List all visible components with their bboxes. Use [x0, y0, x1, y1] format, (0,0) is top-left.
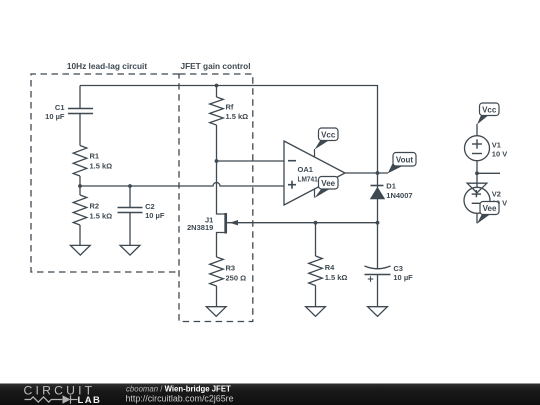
svg-text:LM741: LM741 — [298, 175, 318, 184]
svg-text:R3: R3 — [226, 264, 236, 273]
flag Vee (supply) tail — [477, 214, 491, 224]
svg-text:250 Ω: 250 Ω — [226, 273, 247, 282]
wire: non-inverting input run with hop — [80, 183, 284, 186]
ground at supply midpoint — [467, 183, 487, 193]
wire: R1 bottom to junction — [79, 176, 81, 186]
svg-text:Vcc: Vcc — [482, 105, 497, 114]
svg-text:Vcc: Vcc — [321, 130, 336, 139]
svg-text:1.5 kΩ: 1.5 kΩ — [90, 212, 113, 221]
node: R4 tap junction — [314, 221, 318, 225]
footer bar — [0, 384, 540, 405]
source V2 — [464, 187, 490, 213]
diode D1 body — [370, 187, 385, 200]
svg-text:R4: R4 — [325, 263, 335, 272]
wire: J1 drain lead — [217, 161, 225, 214]
wire: V1 bottom to junction — [476, 161, 478, 174]
wire: J1 source lead — [217, 233, 225, 258]
op-amp plus marker — [288, 181, 296, 189]
svg-text:R2: R2 — [90, 201, 100, 210]
V1 minus marker — [472, 153, 482, 155]
node: output junction — [376, 171, 380, 175]
svg-text:Rf: Rf — [226, 102, 234, 111]
V1 plus marker — [472, 139, 482, 148]
op-amp Vee pin stub — [314, 189, 316, 198]
wire: C1 top lead — [79, 86, 81, 109]
svg-text:10Hz lead-lag circuit: 10Hz lead-lag circuit — [67, 61, 147, 71]
svg-text:OA1: OA1 — [298, 165, 313, 174]
flag Vee (op-amp) — [319, 177, 339, 190]
wire: C1 bottom to R1 — [79, 114, 81, 146]
ground under R2 — [70, 245, 90, 255]
flag Vcc (supply) tail — [477, 114, 490, 125]
wire: C2 bottom lead — [129, 213, 131, 246]
V2 plus marker — [472, 190, 481, 197]
op-amp Vcc pin stub — [314, 149, 316, 158]
svg-text:Vee: Vee — [321, 179, 335, 188]
wire: V2 bottom stub — [476, 214, 478, 224]
svg-text:2N3819: 2N3819 — [187, 223, 213, 232]
wire: Rf top lead — [216, 86, 218, 98]
svg-text:10 V: 10 V — [492, 149, 507, 158]
resistor R1 — [73, 146, 87, 177]
svg-text:V1: V1 — [492, 140, 501, 149]
svg-text:C3: C3 — [393, 264, 403, 273]
ground under R4 — [306, 307, 326, 317]
capacitor C3 straight plate — [365, 274, 391, 276]
node: inverting input junction — [215, 159, 219, 163]
wire: Rf bottom lead to node — [216, 125, 218, 161]
ground under C2 — [120, 245, 140, 255]
wire: top feedback rail (C1 top to op-amp output column) — [80, 86, 378, 269]
svg-text:1.5 kΩ: 1.5 kΩ — [90, 162, 113, 171]
wire: Vcc to V1 — [476, 124, 478, 136]
flag Vout tail — [388, 163, 402, 173]
flag Vee (op-amp) tail — [315, 189, 331, 199]
ground under R3 — [206, 307, 226, 317]
capacitor C3 curved plate — [365, 266, 391, 269]
capacitor C2 — [118, 208, 143, 213]
J1 gate arrowhead — [230, 220, 239, 225]
wire: junction to V2 top — [476, 173, 478, 187]
svg-text:Vee: Vee — [483, 204, 497, 213]
resistor Rf — [210, 97, 224, 125]
logo diode triangle — [63, 395, 71, 403]
wire: inverting input — [217, 160, 285, 162]
svg-text:Vout: Vout — [396, 155, 414, 164]
wire: R2 bottom lead — [79, 225, 81, 245]
V2 minus marker — [472, 202, 481, 204]
wire: C3 bottom lead — [377, 275, 379, 307]
capacitor C1 — [68, 109, 93, 114]
svg-text:10 µF: 10 µF — [393, 273, 413, 282]
op-amp OA1 body — [284, 141, 345, 205]
svg-text:C1: C1 — [55, 103, 65, 112]
wire: R2 top lead — [79, 186, 81, 195]
source V1 — [465, 136, 490, 161]
node: R1/R2 junction — [78, 184, 82, 188]
wire: R4 top lead — [315, 223, 317, 256]
svg-text:V2: V2 — [492, 190, 501, 199]
svg-text:R1: R1 — [90, 152, 100, 161]
svg-text:1.5 kΩ: 1.5 kΩ — [226, 112, 249, 121]
node: C2 tap junction — [128, 184, 132, 188]
svg-text:D1: D1 — [386, 182, 396, 191]
ground under C3 — [368, 307, 388, 317]
wire: op-amp output — [345, 172, 388, 174]
diode D1 cathode bar — [371, 185, 384, 187]
flag Vcc (op-amp) tail — [315, 140, 330, 150]
svg-text:1N4007: 1N4007 — [386, 191, 412, 200]
C3 polarity plus — [368, 276, 374, 282]
dashed box: JFET gain control — [179, 74, 253, 322]
svg-text:1.5 kΩ: 1.5 kΩ — [325, 273, 348, 282]
flag Vcc (supply) — [480, 103, 500, 116]
svg-text:C2: C2 — [145, 202, 155, 211]
wire: J1 gate — [227, 222, 378, 224]
resistor R4 — [309, 256, 323, 286]
flag Vout — [393, 153, 416, 167]
transistor J1 channel bar — [224, 213, 227, 234]
node: output column / gate wire junction — [376, 221, 380, 225]
svg-text:http://circuitlab.com/c2j65re: http://circuitlab.com/c2j65re — [126, 393, 234, 403]
node: V1/V2 junction — [475, 171, 479, 175]
flag Vee (supply) — [480, 202, 499, 215]
resistor R2 — [73, 195, 87, 225]
resistor R3 — [210, 257, 224, 286]
wire: junction stub right — [477, 172, 500, 174]
svg-text:JFET gain control: JFET gain control — [180, 61, 250, 71]
wire: R3 bottom lead — [216, 286, 218, 307]
svg-text:10 µF: 10 µF — [145, 211, 165, 220]
svg-text:cbooman / Wien-bridge JFET: cbooman / Wien-bridge JFET — [126, 384, 231, 393]
op-amp minus marker — [288, 160, 296, 162]
dashed box: 10Hz lead-lag circuit — [31, 74, 179, 272]
wire: C2 top lead — [129, 186, 131, 208]
node: Rf top junction — [215, 84, 219, 88]
svg-text:10 µF: 10 µF — [45, 112, 65, 121]
wire: R4 bottom lead — [315, 286, 317, 307]
logo zigzag and diode — [25, 395, 78, 403]
flag Vcc (op-amp) — [319, 128, 339, 141]
svg-text:LAB: LAB — [78, 395, 102, 405]
